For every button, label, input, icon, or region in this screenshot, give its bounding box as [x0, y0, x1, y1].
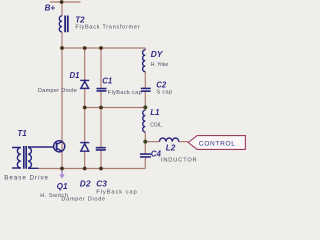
junction node mid bus C — [99, 106, 103, 110]
capacitor C3 — [96, 148, 106, 150]
damper diode D2 — [80, 143, 89, 152]
junction node bottom bus Q1 — [60, 167, 64, 171]
junction node mid bus right — [143, 105, 147, 109]
coil L1 — [143, 110, 146, 132]
junction node top bus left — [60, 46, 64, 50]
svg-text:H. Yoke: H. Yoke — [151, 62, 169, 68]
svg-text:INDUCTOR: INDUCTOR — [161, 157, 198, 163]
wire left rail upper — [61, 2, 63, 16]
junction node bottom bus C — [99, 167, 103, 171]
svg-text:Damper Diode: Damper Diode — [38, 88, 77, 94]
yoke coil DY — [143, 50, 146, 72]
svg-text:B+: B+ — [45, 3, 56, 12]
wire Q1 base — [28, 146, 54, 148]
svg-text:DY: DY — [151, 49, 164, 59]
wire C column — [100, 48, 102, 169]
svg-text:C4: C4 — [151, 149, 162, 158]
svg-text:COIL: COIL — [150, 123, 162, 129]
svg-text:T2: T2 — [75, 15, 85, 24]
svg-text:FlyBack cap: FlyBack cap — [108, 90, 142, 96]
svg-text:D2: D2 — [80, 180, 91, 189]
junction node top bus D — [83, 46, 87, 50]
wire bottom bus — [38, 168, 145, 170]
svg-text:FlyBack cap: FlyBack cap — [96, 190, 137, 196]
svg-text:C1: C1 — [102, 77, 112, 86]
damper diode D1 — [80, 80, 89, 88]
junction node mid bus D — [83, 106, 87, 110]
transistor Q1 — [54, 141, 65, 152]
svg-text:L2: L2 — [166, 144, 176, 153]
wire right rail segments — [144, 48, 146, 169]
capacitor C4 — [140, 154, 151, 157]
capacitor C2 — [141, 88, 151, 91]
svg-text:D1: D1 — [70, 71, 80, 80]
transformer T1 — [12, 146, 39, 169]
inductor L2 — [160, 138, 179, 142]
capacitor C1 — [97, 89, 107, 91]
wire D column — [84, 48, 86, 169]
junction node top bus C — [99, 46, 103, 50]
junction node bottom bus D — [83, 167, 87, 171]
wire mid bus — [85, 107, 146, 109]
ground arrow under Q1 — [59, 170, 64, 179]
transformer T2 — [59, 16, 67, 33]
wire top bus — [62, 47, 145, 49]
junction node B+ — [60, 0, 64, 4]
svg-text:C3: C3 — [96, 180, 107, 189]
wire left rail middle — [61, 32, 63, 169]
svg-text:Bease Drive: Bease Drive — [4, 174, 49, 181]
svg-text:S cap: S cap — [156, 90, 172, 96]
svg-text:C2: C2 — [156, 81, 167, 90]
svg-text:L1: L1 — [150, 108, 159, 117]
svg-text:FlyBack Transformer: FlyBack Transformer — [75, 25, 140, 31]
svg-text:H. Switch: H. Switch — [40, 193, 68, 199]
wire B+ stub — [50, 1, 81, 3]
svg-text:CONTROL: CONTROL — [199, 140, 236, 147]
svg-text:T1: T1 — [17, 129, 27, 138]
svg-text:Q1: Q1 — [57, 182, 68, 191]
control box — [188, 136, 245, 150]
junction node L2 tap — [143, 140, 147, 144]
wire L2 branch — [145, 141, 188, 143]
